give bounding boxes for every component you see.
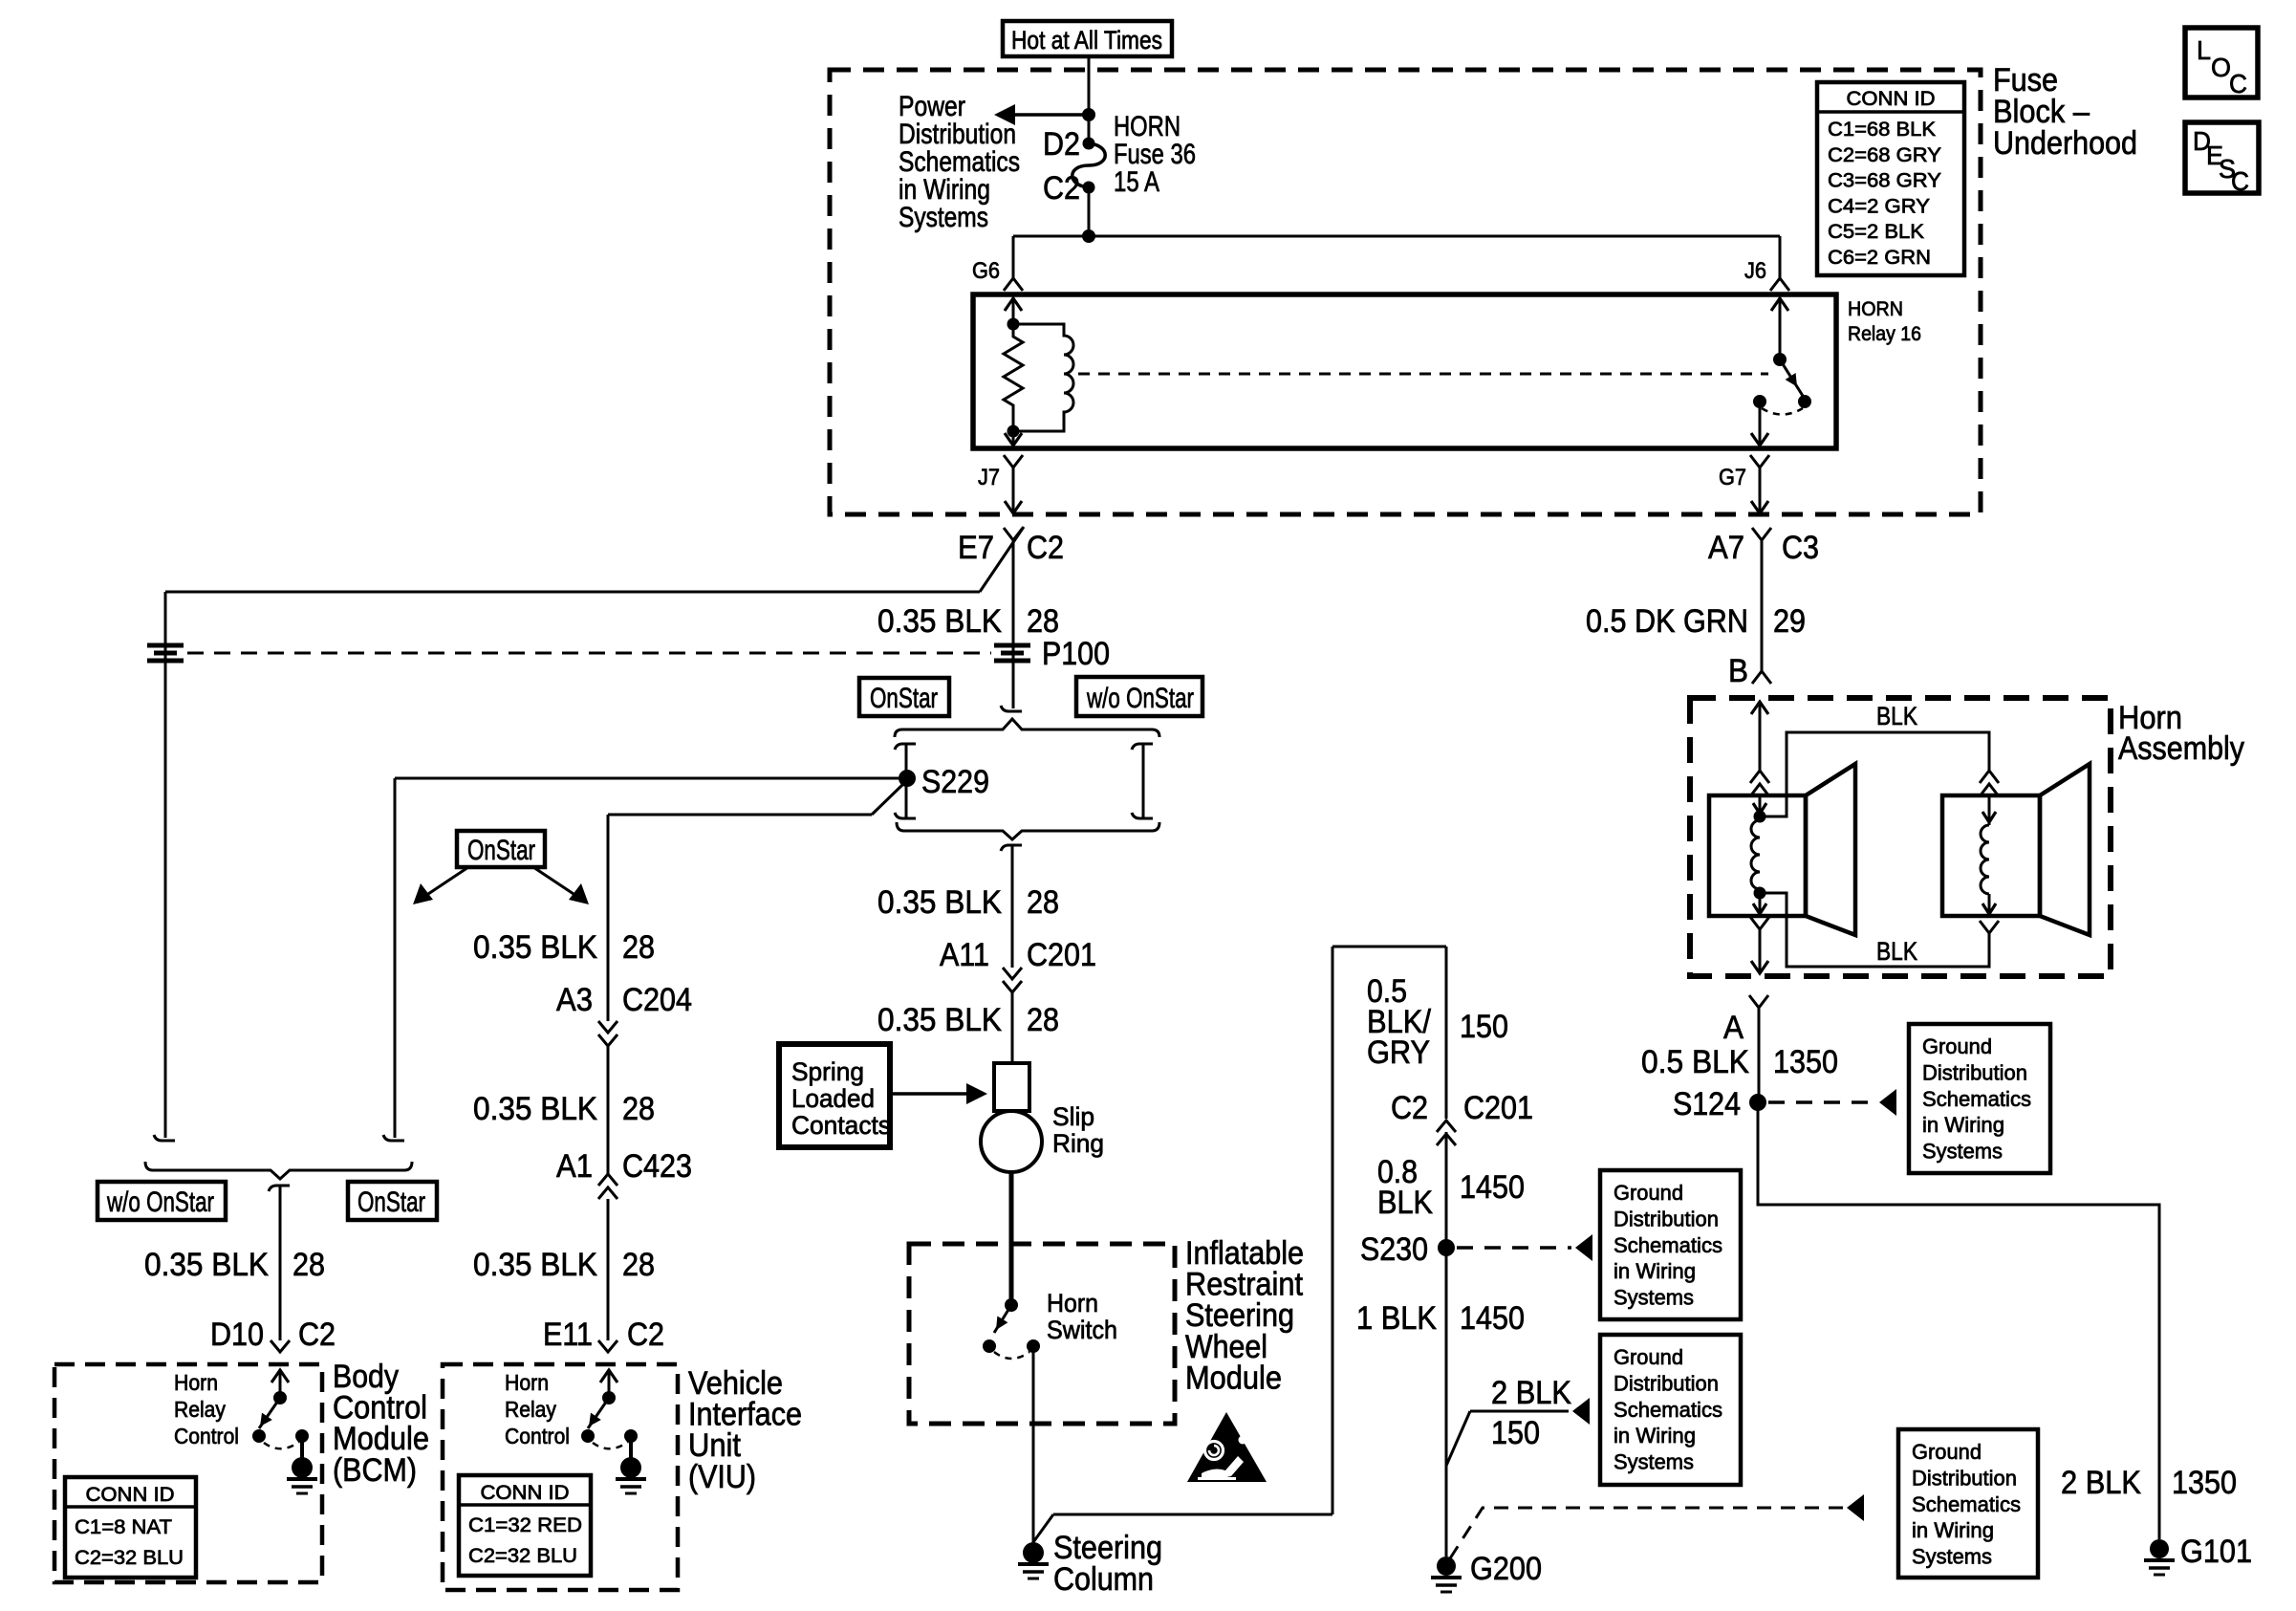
wire from hot at all times down to fuse (1088, 56, 1091, 143)
svg-text:Schematics: Schematics (1912, 1492, 2021, 1516)
BCM internal ground (300, 1436, 304, 1459)
relay coil return wire (1012, 431, 1015, 446)
horn assembly dashed box (1690, 698, 2111, 976)
connector chevrons into horn 2 top (1980, 771, 1999, 783)
module ground wire to C201 (1033, 1514, 1053, 1542)
wire B into horn 1 (1759, 701, 1762, 771)
svg-text:in Wiring: in Wiring (1614, 1259, 1696, 1283)
svg-text:15 A: 15 A (1114, 166, 1159, 198)
dashed reference from S230 (1457, 1246, 1571, 1250)
svg-text:C2: C2 (1043, 170, 1080, 207)
svg-text:1350: 1350 (1773, 1044, 1838, 1080)
left pass-through grommet (147, 643, 184, 648)
wire down to relay pin J6 (1779, 236, 1782, 278)
CONN ID table BCM (65, 1477, 196, 1578)
svg-text:C2: C2 (627, 1317, 664, 1353)
svg-text:C5=2 BLK: C5=2 BLK (1828, 221, 1924, 243)
relay output wire to G7 (1759, 402, 1762, 446)
svg-text:1350: 1350 (2172, 1465, 2237, 1501)
svg-text:C201: C201 (1463, 1090, 1533, 1126)
wire down to relay pin G6 (1012, 236, 1015, 278)
svg-text:Systems: Systems (1922, 1140, 2003, 1164)
svg-text:A7: A7 (1708, 530, 1744, 566)
svg-text:Column: Column (1053, 1561, 1154, 1598)
svg-text:CONN ID: CONN ID (86, 1484, 175, 1506)
svg-text:A3: A3 (556, 982, 593, 1018)
svg-text:28: 28 (292, 1247, 325, 1283)
svg-text:2 BLK: 2 BLK (2061, 1465, 2141, 1501)
svg-text:w/o OnStar: w/o OnStar (1086, 683, 1194, 714)
svg-text:w/o OnStar: w/o OnStar (106, 1186, 214, 1218)
connector fork J6 (1770, 278, 1789, 291)
w/o OnStar option label box lower (97, 1182, 226, 1220)
wire C201 to slip ring (1011, 992, 1014, 1063)
svg-text:0.35 BLK: 0.35 BLK (473, 929, 597, 966)
svg-text:OnStar: OnStar (357, 1186, 425, 1218)
relay resistor (1004, 324, 1023, 431)
svg-text:2 BLK: 2 BLK (1491, 1375, 1571, 1411)
relay switch pivot (1773, 353, 1787, 366)
horn 2 cone (2040, 764, 2090, 935)
svg-text:A11: A11 (940, 937, 989, 973)
svg-text:0.35 BLK: 0.35 BLK (877, 884, 1002, 921)
connector chevron B (1752, 671, 1771, 684)
svg-text:28: 28 (622, 929, 655, 966)
svg-text:Distribution: Distribution (1614, 1371, 1719, 1395)
horn switch (1005, 1298, 1018, 1312)
OnStar option label box upper (859, 678, 949, 716)
svg-text:Ground: Ground (1614, 1345, 1683, 1369)
svg-text:C6=2 GRN: C6=2 GRN (1828, 247, 1931, 269)
svg-text:1 BLK: 1 BLK (1356, 1300, 1437, 1337)
wire C201 to S230 (1445, 1132, 1448, 1248)
wire G7 to fuse block edge (1759, 468, 1762, 512)
wire from fuse to relay feed bus (1088, 187, 1091, 236)
wire C423 to VIU (607, 1199, 610, 1340)
svg-text:D2: D2 (1043, 126, 1080, 163)
connector A7 of C3 (1752, 528, 1771, 540)
inflatable restraint steering wheel module dashed box (909, 1244, 1175, 1424)
svg-text:Systems: Systems (899, 202, 988, 233)
wire to power distribution schematics (1009, 113, 1089, 117)
svg-text:C3=68 GRY: C3=68 GRY (1828, 170, 1941, 192)
relay switch blade (1780, 359, 1803, 396)
ground G200 (1437, 1557, 1456, 1576)
svg-text:Module: Module (1185, 1360, 1282, 1396)
wire C204 to C423 (607, 1046, 610, 1174)
svg-text:Slip: Slip (1052, 1102, 1094, 1131)
bus wire across fuse block (1013, 235, 1780, 238)
dashed reference from S124 (1768, 1100, 1875, 1104)
svg-text:Systems: Systems (1614, 1450, 1694, 1474)
svg-text:C1=32 RED: C1=32 RED (468, 1514, 582, 1536)
svg-text:E11: E11 (543, 1317, 593, 1353)
w/o OnStar option label box upper (1076, 677, 1202, 716)
connector A horn assembly (1749, 995, 1768, 1008)
svg-text:Loaded: Loaded (791, 1084, 875, 1113)
svg-text:0.35 BLK: 0.35 BLK (473, 1247, 597, 1283)
slip ring (994, 1063, 1029, 1111)
ground G101 (2150, 1539, 2169, 1558)
relay coil feed wire (1012, 297, 1015, 324)
svg-text:Switch: Switch (1047, 1316, 1117, 1344)
wire A to S124 (1758, 1008, 1761, 1102)
svg-text:150: 150 (1460, 1009, 1508, 1045)
OnStar callout box with arrows (457, 831, 545, 867)
svg-text:Schematics: Schematics (1614, 1233, 1722, 1257)
svg-text:Horn: Horn (505, 1370, 549, 1395)
svg-text:C423: C423 (622, 1148, 692, 1185)
svg-text:S124: S124 (1673, 1086, 1741, 1122)
relay switch dashed throw arc (1762, 408, 1803, 415)
connector fork G7 (1750, 455, 1769, 468)
svg-text:CONN ID: CONN ID (1847, 88, 1936, 110)
wire J7 to fuse block edge (1012, 468, 1015, 512)
svg-text:P100: P100 (1042, 636, 1110, 672)
svg-text:L: L (2197, 35, 2211, 65)
svg-text:150: 150 (1491, 1415, 1540, 1451)
svg-text:C1=8 NAT: C1=8 NAT (75, 1516, 172, 1538)
svg-text:(BCM): (BCM) (333, 1452, 417, 1489)
steering column ground (1023, 1542, 1044, 1563)
ground distribution box for G200 reference (1898, 1429, 2038, 1578)
svg-text:1450: 1450 (1460, 1169, 1525, 1206)
svg-text:C204: C204 (622, 982, 692, 1018)
svg-text:OnStar: OnStar (870, 683, 938, 714)
svg-text:C2=68 GRY: C2=68 GRY (1828, 144, 1941, 166)
SIR warning triangle (1187, 1412, 1267, 1482)
svg-text:Distribution: Distribution (1922, 1060, 2027, 1084)
hot at all times label box (1003, 21, 1172, 56)
LOC reference box (2185, 28, 2258, 98)
svg-text:29: 29 (1773, 603, 1806, 640)
svg-text:28: 28 (1027, 884, 1059, 921)
wire S230 to G200 (1445, 1248, 1448, 1557)
svg-text:Ground: Ground (1614, 1181, 1683, 1205)
svg-text:(VIU): (VIU) (688, 1459, 756, 1495)
horn 2 body (1942, 795, 2040, 916)
svg-text:28: 28 (1027, 1002, 1059, 1038)
option stub right (1132, 744, 1153, 750)
svg-text:Hot at All Times: Hot at All Times (1011, 26, 1162, 54)
svg-text:D10: D10 (210, 1317, 264, 1353)
svg-text:Control: Control (174, 1424, 239, 1448)
svg-text:C2=32 BLU: C2=32 BLU (75, 1547, 184, 1569)
svg-text:Ground: Ground (1912, 1440, 1982, 1464)
svg-text:Relay: Relay (174, 1397, 226, 1422)
VIU internal ground (629, 1436, 633, 1459)
fuse block underhood dashed box (830, 70, 1981, 514)
svg-text:Horn: Horn (174, 1370, 218, 1395)
svg-text:0.35 BLK: 0.35 BLK (877, 603, 1002, 640)
svg-text:G6: G6 (972, 258, 1000, 284)
svg-text:C3: C3 (1782, 530, 1819, 566)
arrow spring loaded contacts to slip ring (890, 1092, 967, 1096)
svg-text:O: O (2211, 53, 2231, 82)
branch 2 BLK 150 reference (1446, 1411, 1470, 1466)
ground distribution box for 2 BLK 150 (1600, 1335, 1741, 1485)
svg-text:28: 28 (622, 1091, 655, 1127)
svg-text:BLK: BLK (1876, 702, 1917, 730)
svg-text:BLK: BLK (1876, 937, 1917, 966)
connector chevrons into horn 1 top (1750, 771, 1769, 783)
wire horn switch to steering column ground (1032, 1346, 1035, 1543)
relay coil winding (1013, 324, 1073, 431)
connector fork J7 (1004, 455, 1023, 468)
horn jumper wire BLK top (1760, 732, 1989, 816)
svg-text:1450: 1450 (1460, 1300, 1525, 1337)
svg-text:OnStar: OnStar (467, 835, 535, 866)
svg-text:G101: G101 (2180, 1534, 2252, 1570)
svg-text:C2: C2 (1027, 530, 1064, 566)
svg-text:C201: C201 (1027, 937, 1096, 973)
OnStar option label box lower (348, 1182, 437, 1220)
wire A7 to horn assembly (1761, 540, 1764, 671)
svg-text:0.5 DK GRN: 0.5 DK GRN (1586, 603, 1748, 640)
wire S229 to left drop (395, 777, 899, 780)
svg-text:C2: C2 (298, 1317, 336, 1353)
svg-text:C4=2 GRY: C4=2 GRY (1828, 195, 1930, 217)
svg-text:S230: S230 (1360, 1231, 1428, 1268)
svg-text:Ring: Ring (1052, 1129, 1104, 1158)
branch wire to w/o OnStar path (165, 591, 980, 594)
horn 1 coil (1759, 795, 1762, 816)
ground distribution box for S124 (1909, 1024, 2050, 1173)
svg-text:Contacts: Contacts (791, 1111, 891, 1140)
grommet P100 (994, 643, 1030, 648)
svg-text:in Wiring: in Wiring (1614, 1424, 1696, 1448)
svg-text:0.35 BLK: 0.35 BLK (144, 1247, 269, 1283)
svg-text:Assembly: Assembly (2118, 730, 2244, 767)
svg-text:S229: S229 (921, 764, 989, 800)
ground distribution box for S230 (1600, 1170, 1741, 1319)
option brace lower (897, 822, 1159, 839)
svg-text:Relay: Relay (505, 1397, 556, 1422)
BCM horn relay control switch (279, 1369, 282, 1398)
junction node to power distribution (1082, 108, 1095, 121)
body control module dashed box (54, 1364, 322, 1582)
svg-text:G200: G200 (1470, 1551, 1542, 1587)
horn 1 body (1709, 795, 1806, 916)
svg-text:Schematics: Schematics (1922, 1087, 2031, 1111)
svg-text:A: A (1723, 1010, 1744, 1046)
svg-text:E7: E7 (958, 530, 994, 566)
horn 1 cone (1806, 764, 1855, 935)
svg-text:Ground: Ground (1922, 1034, 1992, 1058)
svg-text:G7: G7 (1719, 465, 1746, 490)
fuse F36 HORN 15A (1083, 138, 1095, 150)
svg-text:Horn: Horn (1047, 1289, 1098, 1317)
VIU horn relay control switch (608, 1369, 611, 1398)
svg-text:CONN ID: CONN ID (481, 1482, 570, 1504)
wire horn 1 to assembly edge (1750, 917, 1769, 929)
wire slip ring to horn switch (1009, 1172, 1014, 1305)
svg-text:in Wiring: in Wiring (1912, 1518, 1994, 1542)
svg-text:Systems: Systems (1912, 1545, 1992, 1569)
relay switch contact (1753, 395, 1766, 408)
svg-text:GRY: GRY (1367, 1034, 1430, 1071)
wire S229 diagonal to VIU drop (872, 785, 902, 815)
svg-text:Schematics: Schematics (1614, 1398, 1722, 1422)
connector E7 of C2 with branch (1004, 528, 1023, 540)
svg-text:Distribution: Distribution (1912, 1466, 2017, 1490)
svg-text:BLK: BLK (1377, 1185, 1433, 1221)
horn jumper wire BLK bottom (1980, 921, 1999, 933)
svg-text:HORN: HORN (1848, 298, 1903, 320)
svg-text:J7: J7 (978, 465, 1000, 490)
svg-text:B: B (1728, 653, 1748, 689)
wire S124 to G101 (1758, 1102, 2159, 1539)
horn 2 coil (1988, 795, 1991, 825)
svg-text:Underhood: Underhood (1993, 125, 2137, 162)
spring loaded contacts callout box (779, 1044, 890, 1147)
svg-text:C2: C2 (1391, 1090, 1428, 1126)
DESC reference box (2185, 122, 2259, 193)
svg-text:Distribution: Distribution (1614, 1207, 1719, 1230)
svg-text:J6: J6 (1744, 258, 1766, 284)
svg-text:0.35 BLK: 0.35 BLK (473, 1091, 597, 1127)
svg-text:0.35 BLK: 0.35 BLK (877, 1002, 1002, 1038)
horn relay 16 box (973, 294, 1836, 448)
svg-text:0.5 BLK: 0.5 BLK (1641, 1044, 1749, 1080)
relay actuation dashed link (1078, 373, 1768, 376)
svg-text:C1=68 BLK: C1=68 BLK (1828, 119, 1936, 141)
svg-text:Relay 16: Relay 16 (1848, 323, 1921, 345)
option stub with splice S229 (895, 744, 916, 750)
vehicle interface unit dashed box (443, 1364, 678, 1590)
svg-text:Systems: Systems (1614, 1286, 1694, 1310)
wire down from option brace to C201 (1011, 845, 1014, 968)
wire option merge to BCM (279, 1186, 282, 1340)
CONN ID table VIU (459, 1475, 591, 1576)
splice S230 (1438, 1239, 1455, 1256)
dashed link between grommets (187, 652, 991, 655)
svg-text:C: C (2229, 69, 2247, 98)
svg-text:28: 28 (622, 1247, 655, 1283)
wire E7 down to P100 (1012, 540, 1015, 708)
svg-text:28: 28 (1027, 603, 1059, 640)
CONN ID table fuse block underhood (1817, 82, 1964, 275)
option brace upper (1001, 706, 1022, 711)
svg-text:Control: Control (505, 1424, 570, 1448)
svg-text:A1: A1 (556, 1148, 593, 1185)
svg-text:Spring: Spring (791, 1057, 864, 1086)
svg-text:C: C (2231, 166, 2249, 196)
relay switch feed wire from J6 (1779, 297, 1782, 359)
option brace lower left (154, 1135, 175, 1141)
svg-text:in Wiring: in Wiring (1922, 1113, 2004, 1137)
connector fork G6 (1004, 278, 1023, 291)
splice S124 (1749, 1094, 1766, 1111)
splice S229 (899, 770, 916, 787)
dashed reference from G200 (1450, 1508, 1844, 1558)
svg-text:C2=32 BLU: C2=32 BLU (468, 1545, 577, 1567)
